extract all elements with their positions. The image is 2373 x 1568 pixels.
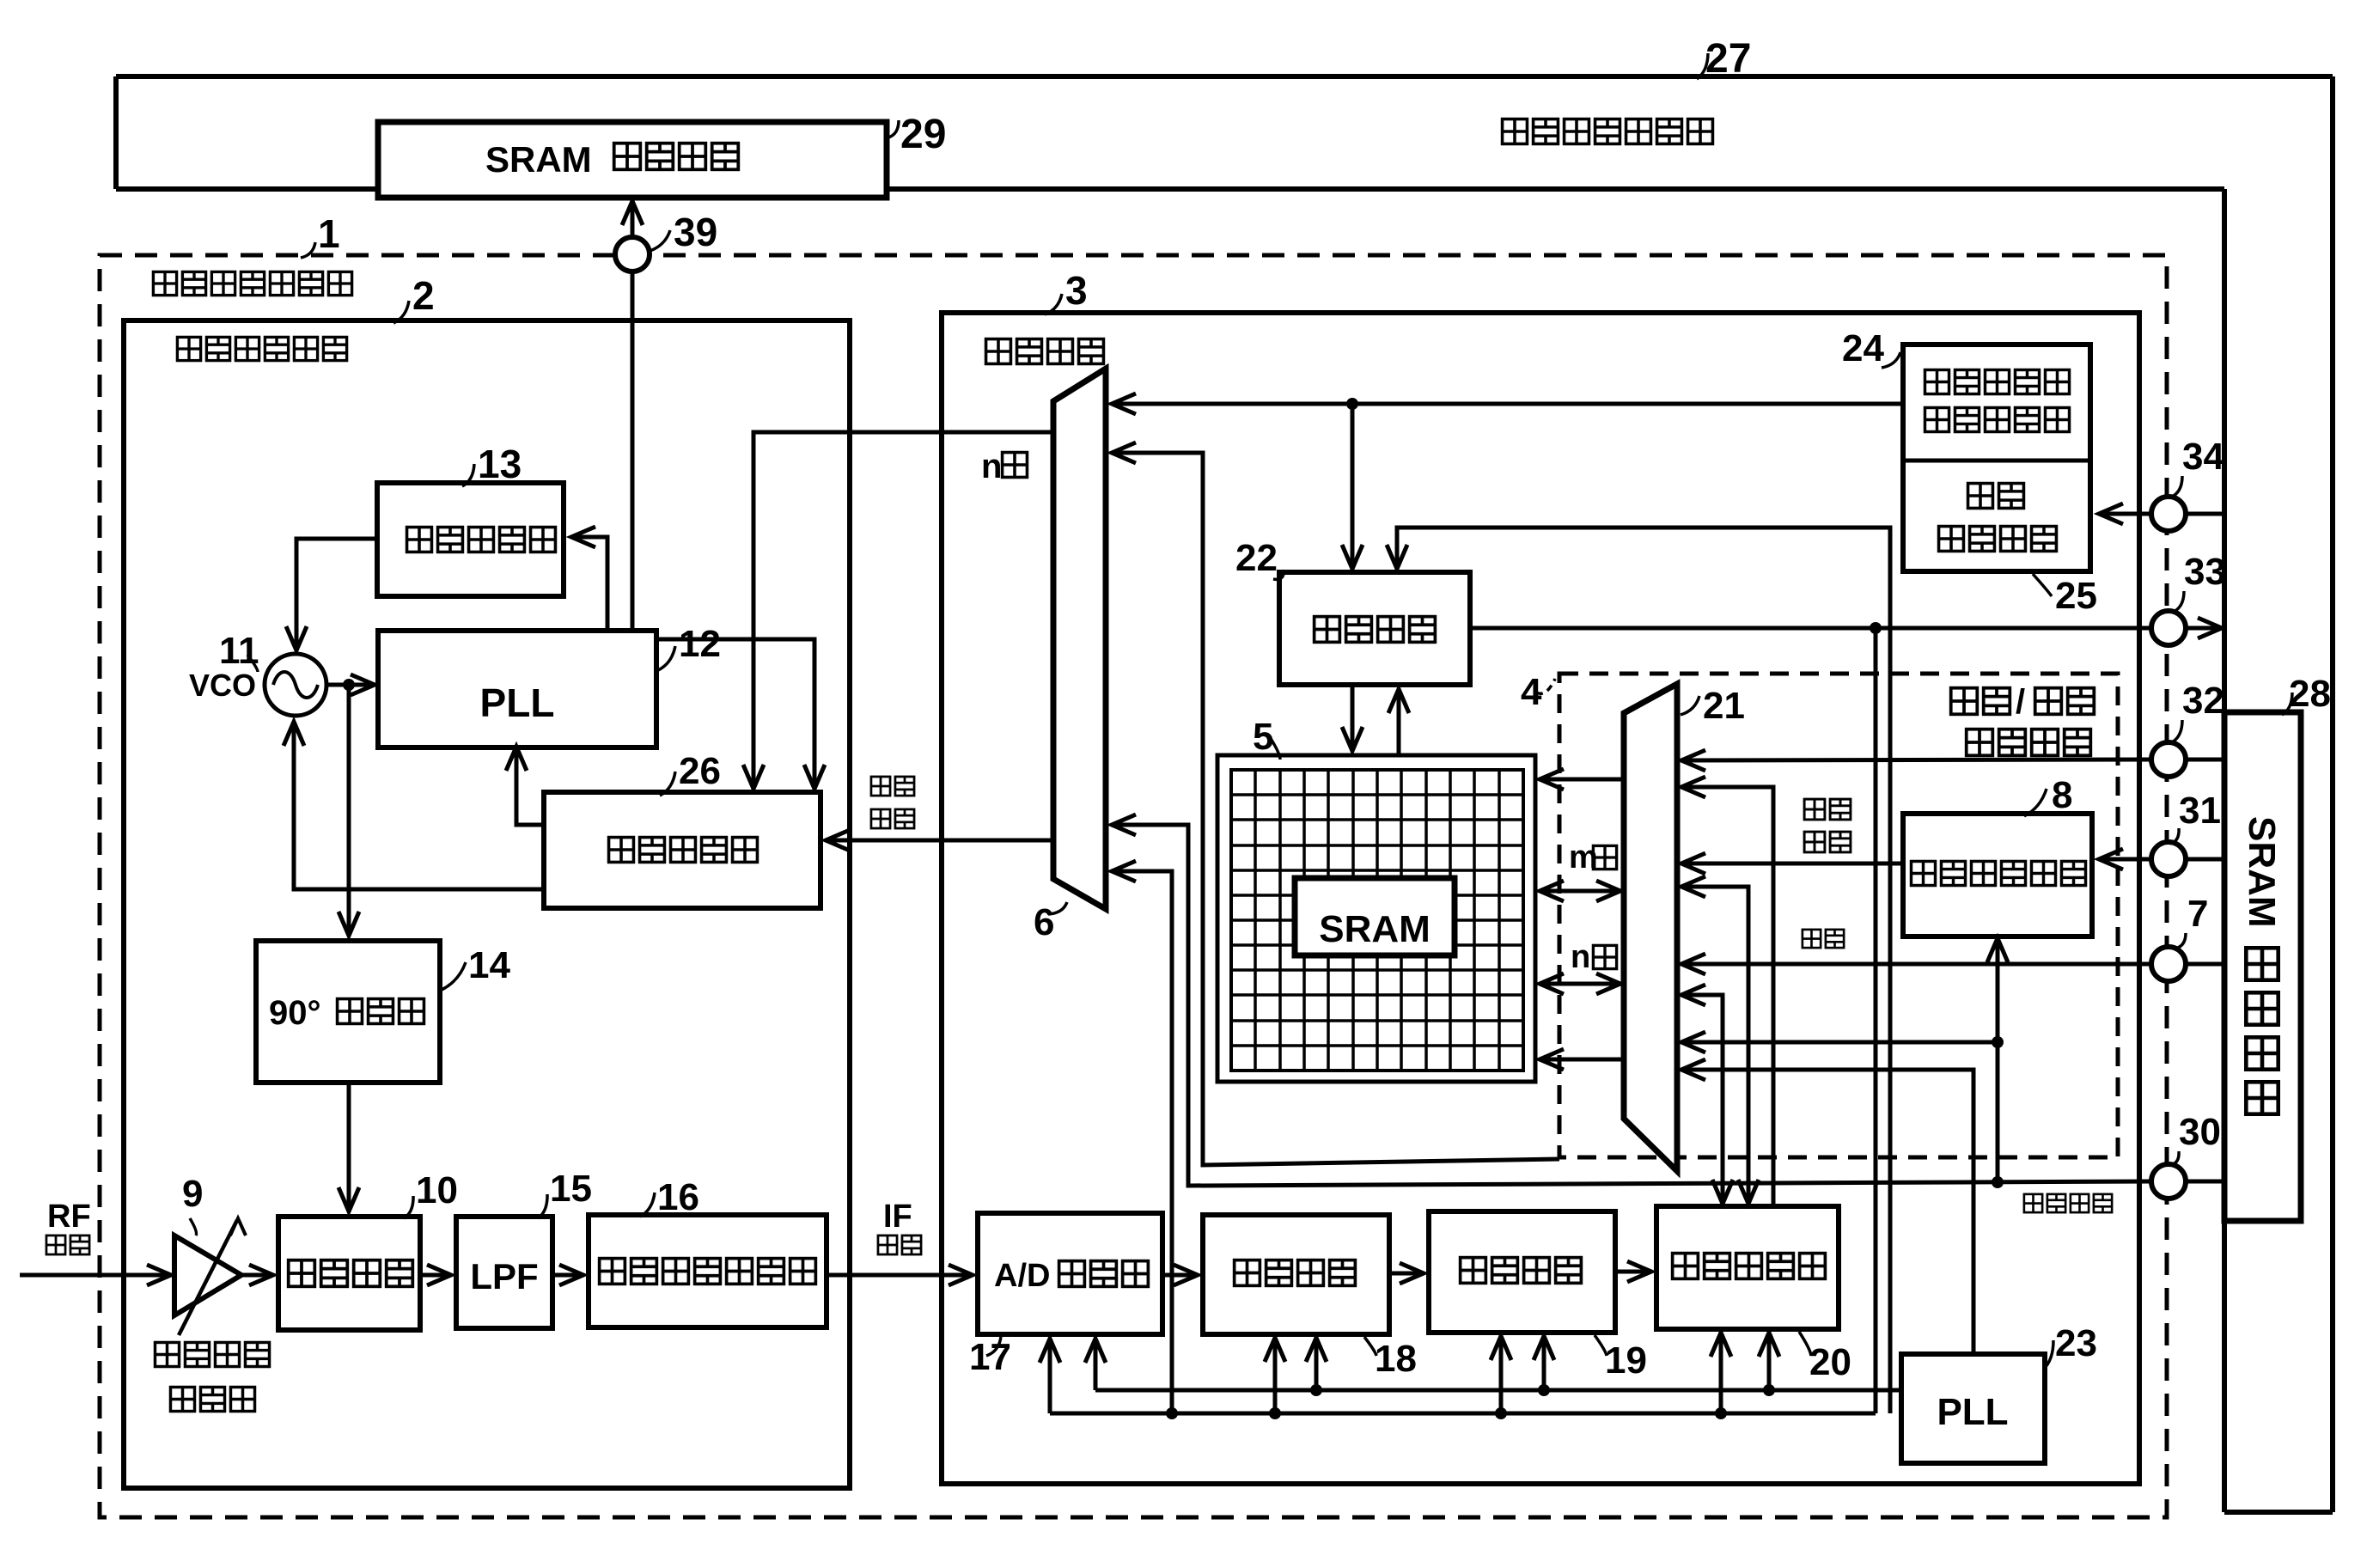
svg-text:16: 16 [657, 1176, 699, 1218]
svg-text:22: 22 [1235, 537, 1278, 579]
svg-text:n: n [1571, 939, 1590, 975]
svg-text:SRAM: SRAM [1319, 908, 1431, 950]
svg-text:SRAM: SRAM [2241, 816, 2283, 928]
svg-text:9: 9 [182, 1173, 203, 1215]
svg-text:7: 7 [2187, 893, 2208, 935]
svg-text:VCO: VCO [189, 668, 256, 703]
svg-text:25: 25 [2055, 575, 2097, 617]
svg-text:15: 15 [550, 1168, 592, 1210]
svg-text:n: n [981, 448, 1002, 485]
svg-text:8: 8 [2052, 774, 2072, 816]
svg-text:23: 23 [2055, 1322, 2097, 1364]
svg-text:IF: IF [883, 1199, 912, 1235]
svg-text:17: 17 [969, 1336, 1011, 1378]
svg-text:12: 12 [679, 623, 721, 665]
svg-text:2: 2 [412, 273, 435, 318]
svg-text:24: 24 [1842, 327, 1884, 369]
svg-text:39: 39 [674, 210, 717, 254]
svg-text:31: 31 [2179, 790, 2221, 832]
svg-text:6: 6 [1034, 901, 1054, 943]
svg-text:28: 28 [2289, 673, 2331, 715]
svg-text:27: 27 [1705, 36, 1751, 82]
svg-text:18: 18 [1375, 1338, 1417, 1380]
svg-text:3: 3 [1065, 268, 1088, 313]
svg-text:PLL: PLL [1937, 1391, 2008, 1433]
svg-text:13: 13 [478, 442, 522, 486]
svg-text:A/D: A/D [994, 1258, 1050, 1294]
svg-text:19: 19 [1605, 1339, 1647, 1382]
svg-text:32: 32 [2182, 680, 2224, 722]
svg-text:1: 1 [318, 211, 340, 256]
svg-text:RF: RF [47, 1199, 91, 1235]
svg-text:90°: 90° [269, 994, 321, 1032]
svg-text:33: 33 [2184, 551, 2226, 593]
svg-text:34: 34 [2182, 436, 2224, 478]
svg-text:/: / [2016, 683, 2025, 721]
svg-text:26: 26 [679, 750, 721, 792]
svg-text:30: 30 [2179, 1111, 2221, 1153]
svg-text:SRAM: SRAM [485, 139, 592, 180]
svg-text:10: 10 [416, 1169, 458, 1211]
svg-text:21: 21 [1703, 685, 1745, 727]
svg-text:20: 20 [1809, 1341, 1851, 1383]
svg-text:14: 14 [468, 944, 510, 986]
svg-text:PLL: PLL [480, 680, 555, 725]
svg-text:LPF: LPF [470, 1256, 538, 1296]
svg-text:29: 29 [900, 112, 946, 157]
svg-text:11: 11 [219, 630, 259, 672]
